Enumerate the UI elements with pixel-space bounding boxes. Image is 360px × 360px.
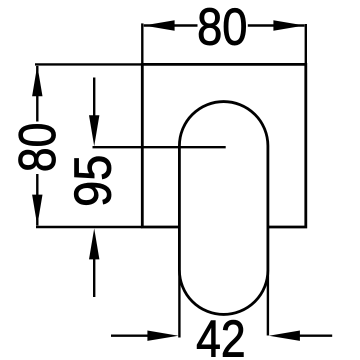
top dimension right arrowhead: [273, 20, 304, 30]
extension line: right edge extended above square: [305, 24, 307, 64]
top dimension left arrowhead: [144, 20, 175, 30]
center leader line of slot: [93, 146, 226, 148]
extension line: left edge extended above square: [141, 23, 143, 64]
svg-text:95: 95: [64, 155, 122, 207]
top dimension line 80: [144, 24, 305, 26]
svg-text:42: 42: [196, 310, 245, 360]
extension line: bottom edge extended left: [36, 226, 142, 228]
top dimension text 80: [197, 0, 247, 56]
dimension text 95 (rotated): [64, 155, 122, 207]
vertical dimension 95: lower arrow pointing up at bottom edge: [93, 255, 95, 297]
bottom dimension 42: left line and arrowhead: [111, 335, 150, 337]
bottom dimension text 42: [196, 310, 245, 360]
left dimension line 80: [36, 66, 38, 226]
extension line: slot left side extended below: [178, 270, 180, 338]
left dimension top arrowhead: [32, 65, 42, 96]
extension line: slot right side extended below: [267, 270, 269, 336]
plate outline (80x80 square, bottom edge interrupted by slot): [142, 64, 305, 227]
svg-text:80: 80: [197, 0, 247, 56]
svg-text:80: 80: [9, 123, 67, 172]
bottom dimension 42: right line and arrowhead: [297, 335, 332, 337]
left dimension bottom arrowhead: [32, 195, 42, 226]
slot (stadium-shaped opening): [179, 102, 268, 315]
extension line: top edge extended left: [35, 63, 142, 65]
left dimension text 80 (rotated): [9, 123, 67, 172]
vertical dimension 95: upper arrow pointing down at slot centerline: [93, 78, 95, 121]
